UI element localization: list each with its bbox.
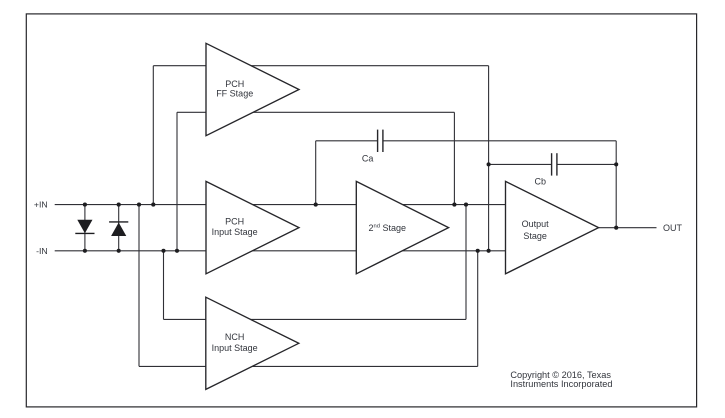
wire NCH bottom xyxy=(139,365,478,367)
op-amp NCH Input Stage xyxy=(206,297,299,389)
svg-text:Input Stage: Input Stage xyxy=(212,227,258,237)
svg-text:PCH: PCH xyxy=(225,79,244,89)
svg-text:Ca: Ca xyxy=(362,153,374,163)
wire FF stage top xyxy=(153,65,488,67)
wire vertical -IN to NCH top xyxy=(163,251,165,320)
wire Cb right xyxy=(558,163,617,165)
diode D1 xyxy=(77,220,92,234)
svg-text:PCH: PCH xyxy=(225,217,244,227)
wire +IN horizontal xyxy=(55,204,506,206)
diode D1 vertical wire xyxy=(84,205,86,251)
wire vertical FF bottom down xyxy=(453,112,455,204)
op-amp PCH FF Stage xyxy=(206,43,299,135)
op-amp PCH Input Stage xyxy=(206,181,299,273)
svg-text:Stage: Stage xyxy=(523,231,547,241)
wire vertical -IN to FF bottom xyxy=(176,112,178,251)
wire -IN horizontal xyxy=(55,250,506,252)
svg-text:OUT: OUT xyxy=(663,223,683,233)
wire vertical FF top to Cb xyxy=(488,66,490,251)
wire NCH top xyxy=(164,318,467,320)
wire Cb left xyxy=(489,163,551,165)
diode D2 xyxy=(111,223,126,237)
svg-text:-IN: -IN xyxy=(36,246,48,256)
wire output xyxy=(599,227,657,229)
junction dots xyxy=(83,162,618,253)
svg-text:+IN: +IN xyxy=(34,200,48,210)
diode D2 vertical wire xyxy=(118,205,120,251)
svg-text:NCH: NCH xyxy=(225,332,245,342)
svg-text:FF Stage: FF Stage xyxy=(216,89,253,99)
wire vertical NCH top up xyxy=(465,205,467,320)
svg-text:Instruments Incorporated: Instruments Incorporated xyxy=(510,379,612,389)
wire Ca right xyxy=(384,140,617,142)
op-amp 2nd Stage xyxy=(356,181,448,273)
capacitor Cb plates xyxy=(552,153,557,175)
wire vertical +IN to NCH bottom xyxy=(138,205,140,367)
svg-text:Output: Output xyxy=(522,219,550,229)
svg-text:Cb: Cb xyxy=(535,177,547,187)
wire Ca left xyxy=(316,140,377,142)
wire vertical Ca left down xyxy=(315,141,317,205)
wire FF stage bottom xyxy=(177,111,454,113)
wire vertical +IN to FF top xyxy=(152,66,154,205)
svg-text:Input Stage: Input Stage xyxy=(212,343,258,353)
wire vertical NCH bottom up xyxy=(477,251,479,367)
capacitor Ca plates xyxy=(378,130,383,152)
wire vertical Ca Cb right to out xyxy=(615,141,617,228)
op-amp Output Stage xyxy=(506,181,599,273)
